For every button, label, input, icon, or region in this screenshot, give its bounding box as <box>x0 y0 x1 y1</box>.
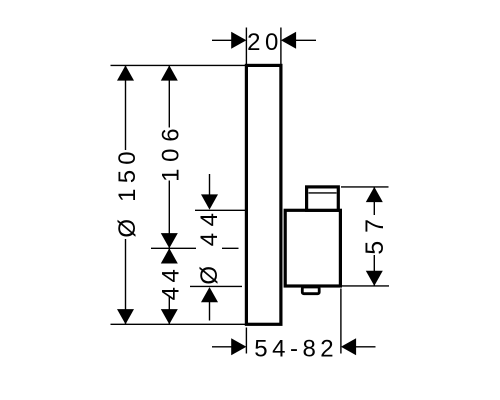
handle <box>307 187 339 210</box>
dimension 106 line <box>168 65 170 127</box>
dimension 57 arrow down <box>366 271 383 286</box>
dimension 20 extension lines <box>245 28 247 65</box>
svg-text:Ø 44: Ø 44 <box>196 207 223 285</box>
extension line bottom (plate bottom, for 150/44 dims) <box>111 323 247 325</box>
dimension 44 arrow down <box>161 309 178 324</box>
extension line top (plate top, for 150/106 dims) <box>111 64 247 66</box>
dimension 54-82 right arrow <box>341 338 356 355</box>
dimension 106 arrow up <box>161 65 178 80</box>
dimension 54-82 left arrow <box>212 346 232 348</box>
dimension 106 arrow down <box>161 233 178 248</box>
dimension 20 right arrow <box>281 32 296 49</box>
valve body <box>285 210 340 286</box>
dimension Ø150 arrow up <box>117 65 134 80</box>
dimension 20 left arrow <box>212 39 232 41</box>
dimension 54-82 extension lines <box>245 328 247 354</box>
extension line knob top (for Ø44 dim) <box>195 209 245 211</box>
svg-text:54-82: 54-82 <box>254 335 338 362</box>
svg-text:57: 57 <box>361 211 389 255</box>
wall plate <box>246 65 281 324</box>
extension line knob bottom (for Ø44 dim) <box>190 285 242 287</box>
dimension 57 line <box>373 187 375 215</box>
svg-text:Ø 150: Ø 150 <box>114 146 141 237</box>
valve bottom tab <box>302 287 319 294</box>
handle inner line <box>309 192 337 194</box>
dimension Ø44 top arrow <box>209 174 211 196</box>
dimension Ø44 bottom arrow <box>201 287 218 302</box>
dimension 44 line <box>168 248 170 263</box>
svg-text:106: 106 <box>157 122 184 182</box>
center line of handle (106/44 boundary) <box>151 247 196 249</box>
svg-text:44: 44 <box>157 265 184 301</box>
dimension 57 arrow up <box>366 187 383 202</box>
dimension 57 extension lines <box>341 186 389 188</box>
dimension Ø150 line <box>125 65 127 150</box>
dimension 44 arrow up <box>161 248 178 263</box>
dimension Ø150 arrow down <box>117 309 134 324</box>
svg-text:20: 20 <box>247 29 283 56</box>
